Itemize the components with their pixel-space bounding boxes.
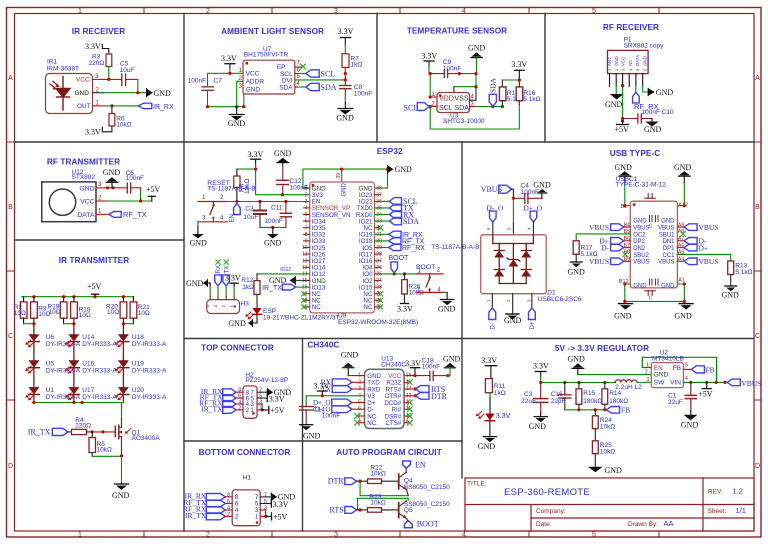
ground flag LED	[228, 319, 252, 328]
wire R5 to source	[92, 455, 121, 457]
svg-text:AMBIENT LIGHT SENSOR: AMBIENT LIGHT SENSOR	[221, 27, 324, 36]
ground symbol R25	[588, 466, 622, 475]
wire VCC net red	[104, 78, 121, 80]
no-connect U13 right	[404, 402, 408, 404]
wire H1 pin7 to gnd flag	[260, 496, 271, 498]
wire C6 down to VCC row	[140, 188, 142, 201]
svg-text:100nF: 100nF	[354, 91, 372, 98]
header P1 SRX882	[607, 37, 664, 74]
svg-text:100nF: 100nF	[126, 175, 144, 182]
svg-text:1: 1	[305, 186, 308, 192]
wire C5 down to GND net	[137, 79, 139, 92]
net flag VBUS B4	[589, 223, 624, 232]
resistor R15	[576, 383, 602, 410]
svg-text:SBU2: SBU2	[633, 253, 649, 259]
svg-text:USB TYPE-C: USB TYPE-C	[610, 149, 661, 158]
svg-text:DTR: DTR	[431, 392, 448, 401]
power flag 3.3V (led)	[481, 356, 497, 379]
svg-text:1kΩ: 1kΩ	[494, 390, 506, 397]
svg-text:AUTO PROGRAM CIRCUIT: AUTO PROGRAM CIRCUIT	[336, 448, 442, 457]
svg-text:VCC: VCC	[621, 57, 626, 66]
svg-text:SCL: SCL	[321, 70, 336, 79]
svg-text:IRM-3638T: IRM-3638T	[47, 66, 80, 73]
svg-text:+5V: +5V	[146, 185, 161, 194]
connector H1	[227, 490, 267, 526]
wire C2 C11 to gnd	[260, 226, 286, 228]
svg-text:3.3V: 3.3V	[269, 394, 285, 403]
svg-text:4: 4	[462, 532, 466, 539]
resistor R18	[71, 302, 78, 318]
net flag RX U13	[321, 378, 365, 387]
SCL pin stub	[295, 73, 299, 75]
wire V3	[306, 396, 364, 407]
SDA pin stub	[295, 86, 299, 88]
net flag DTR U13	[404, 392, 448, 401]
capacitor C12	[277, 166, 308, 195]
svg-text:3: 3	[334, 532, 338, 539]
net flag IR_TX H1	[185, 511, 232, 520]
net flag RTS U13	[404, 385, 445, 394]
power flag 3.3V (reg out)	[533, 362, 549, 383]
capacitor C7	[188, 77, 222, 90]
svg-text:FB: FB	[673, 365, 681, 372]
wire VSS riser	[454, 74, 476, 101]
wire H2 pin1 to +5V	[257, 409, 262, 411]
svg-text:U1: U1	[46, 387, 55, 394]
capacitor C4	[513, 183, 542, 204]
power flag 3.3V (left)	[221, 54, 237, 73]
svg-text:10uF: 10uF	[244, 214, 259, 221]
wire FB rail	[565, 409, 607, 411]
svg-text:GND: GND	[336, 114, 354, 123]
capacitor C9	[429, 59, 461, 78]
wire R22 to Q4 base	[382, 480, 399, 482]
frame column ticks top	[144, 8, 659, 14]
svg-text:180kΩ: 180kΩ	[583, 398, 602, 405]
svg-text:FB: FB	[621, 406, 630, 415]
svg-text:U6: U6	[46, 334, 55, 341]
svg-text:RF TRANSMITTER: RF TRANSMITTER	[47, 158, 120, 167]
svg-text:5: 5	[592, 8, 596, 15]
svg-text:GND: GND	[681, 420, 699, 429]
ground flag (right)	[648, 88, 673, 97]
svg-text:DN1: DN1	[662, 239, 675, 245]
ground symbol reset	[190, 234, 208, 248]
svg-text:DY-IR333-A: DY-IR333-A	[82, 394, 117, 401]
net flag SCL (left)	[404, 103, 430, 113]
ground symbol	[112, 483, 130, 500]
svg-text:CH340C: CH340C	[307, 341, 339, 350]
svg-text:IR RECEIVER: IR RECEIVER	[72, 27, 125, 36]
svg-text:GND: GND	[264, 239, 282, 248]
svg-text:3.3V: 3.3V	[496, 413, 511, 420]
svg-text:10Ω: 10Ω	[14, 310, 26, 317]
wire Q1 source down	[121, 437, 123, 457]
wire Q5 collector to RTS net	[358, 498, 409, 510]
net flag D+_O	[523, 203, 542, 235]
wire pin1	[348, 375, 364, 377]
svg-text:GND: GND	[79, 185, 94, 192]
power flag 3.3V	[248, 150, 264, 169]
svg-text:GND: GND	[674, 311, 692, 320]
transistor Q5 SS8050	[399, 500, 450, 521]
svg-text:3.3V: 3.3V	[338, 27, 354, 36]
LED U16	[65, 360, 117, 374]
svg-text:D-: D-	[601, 243, 609, 252]
svg-text:DY-IR333-A: DY-IR333-A	[46, 394, 81, 401]
resistor R5	[89, 432, 112, 456]
svg-text:6: 6	[305, 219, 308, 225]
wire FB pin5	[683, 368, 691, 370]
svg-text:10Ω: 10Ω	[138, 310, 150, 317]
svg-text:D: D	[755, 463, 760, 470]
resistor R11	[485, 379, 505, 397]
resistor R19	[60, 302, 67, 318]
svg-text:DN2: DN2	[633, 246, 646, 252]
svg-text:9: 9	[305, 239, 308, 245]
wire VCC vertical	[622, 85, 624, 121]
svg-text:VBUS: VBUS	[589, 223, 609, 232]
power flag 3.3V top	[85, 42, 109, 54]
svg-text:4: 4	[462, 8, 466, 15]
wire cathode rail	[32, 402, 122, 404]
net flag IR_TX row16	[262, 284, 310, 292]
svg-text:B: B	[8, 204, 13, 211]
LED U18	[115, 334, 167, 348]
svg-text:2: 2	[305, 192, 308, 198]
power flag 3.3V (left)	[421, 52, 437, 74]
ground symbol above C12	[274, 149, 292, 166]
svg-text:3: 3	[305, 199, 308, 205]
section titles	[47, 23, 660, 457]
svg-text:GND: GND	[395, 165, 413, 174]
net flag RTS	[329, 505, 367, 514]
wire H2 pin3 jog	[257, 403, 262, 405]
ground symbol C14	[300, 425, 321, 441]
svg-text:GND: GND	[661, 283, 675, 289]
svg-text:3.3V: 3.3V	[405, 359, 421, 368]
EP pin stub + no-connect X	[295, 66, 302, 68]
svg-text:SDA: SDA	[321, 83, 337, 92]
svg-text:1kΩ: 1kΩ	[351, 62, 363, 69]
svg-text:GND: GND	[341, 351, 359, 360]
ground symbol top	[674, 163, 692, 206]
svg-text:B1: B1	[621, 204, 628, 210]
svg-text:C11: C11	[271, 205, 283, 212]
ground symbol R13	[722, 286, 740, 299]
svg-text:2: 2	[246, 407, 250, 414]
wire CC1 to R13	[677, 254, 730, 261]
svg-text:GND: GND	[303, 432, 321, 441]
wire H1 pin3 jog	[260, 509, 266, 511]
svg-text:+5V: +5V	[87, 282, 102, 291]
net flag D- A7	[684, 237, 707, 246]
resistor R3	[89, 54, 112, 68]
svg-text:220Ω: 220Ω	[75, 422, 91, 429]
capacitor C11	[264, 202, 291, 228]
ground flag (up)	[103, 168, 121, 188]
svg-text:VSS: VSS	[455, 96, 469, 103]
pin stubs	[610, 74, 643, 87]
svg-text:15: 15	[302, 278, 308, 284]
capacitor C8	[340, 84, 373, 98]
ground symbol boot	[438, 300, 456, 314]
capacitor C10	[623, 109, 674, 123]
ground symbol C3	[529, 417, 548, 431]
net flag IR_RX	[375, 233, 389, 235]
svg-text:BH1750FVI-TR: BH1750FVI-TR	[244, 52, 289, 59]
svg-text:GND: GND	[75, 90, 90, 97]
LED U5	[25, 360, 81, 374]
svg-text:3.3V: 3.3V	[314, 382, 330, 391]
wire R4 to gate	[87, 431, 93, 433]
svg-text:VBUS: VBUS	[699, 257, 719, 266]
net flag D- bottom	[489, 308, 496, 330]
ground flag top right	[388, 165, 413, 174]
power flag 3.3V below R26	[397, 304, 413, 314]
svg-text:IR1: IR1	[47, 59, 58, 66]
wire EN loop to VIN	[642, 357, 716, 382]
svg-text:DVI: DVI	[282, 77, 293, 84]
svg-text:13: 13	[302, 265, 308, 271]
wire GND net	[104, 92, 147, 94]
svg-text:GND: GND	[654, 371, 669, 378]
net flag BOOT auto	[404, 520, 438, 529]
wire R23 to Q5 base	[382, 509, 399, 511]
svg-text:29: 29	[376, 245, 382, 251]
svg-text:1: 1	[255, 514, 259, 521]
capacitor C3	[521, 383, 548, 417]
svg-text:2: 2	[206, 532, 210, 539]
wire R11 to LED	[489, 393, 491, 414]
svg-text:10kΩ: 10kΩ	[600, 448, 615, 455]
title block	[465, 478, 754, 531]
resistor R25	[592, 429, 615, 467]
svg-text:GND: GND	[674, 163, 692, 172]
ground flag H2	[267, 388, 291, 397]
svg-text:C: C	[755, 333, 760, 340]
svg-text:USBLC6-2SC6: USBLC6-2SC6	[538, 296, 582, 303]
svg-text:ESP32-WROOM-32E(8MB): ESP32-WROOM-32E(8MB)	[338, 319, 418, 326]
svg-text:GND: GND	[190, 239, 208, 248]
wire boot to gnd	[444, 292, 447, 299]
svg-text:28: 28	[376, 252, 382, 258]
svg-text:7: 7	[305, 225, 308, 231]
net flag SCL	[375, 200, 390, 202]
wire pin2 to gnd	[615, 86, 617, 94]
svg-text:GND: GND	[443, 355, 461, 364]
svg-text:4: 4	[305, 206, 308, 212]
resistor R4	[72, 417, 92, 435]
svg-text:3.3V: 3.3V	[248, 150, 264, 159]
wire source to gnd	[121, 456, 123, 483]
net flag FB	[606, 406, 630, 415]
no-connect U13 right	[404, 408, 408, 410]
svg-text:DP2: DP2	[633, 239, 645, 245]
resistor stubs top	[24, 297, 134, 302]
power flag 3.3V (right)	[338, 27, 354, 54]
svg-text:VBUS: VBUS	[658, 260, 674, 266]
svg-text:FB: FB	[706, 366, 715, 375]
svg-text:10uF: 10uF	[120, 67, 135, 74]
capacitor C14	[300, 407, 341, 425]
svg-text:1: 1	[78, 8, 82, 15]
photodiode inside IR1	[56, 77, 70, 111]
svg-text:100nF: 100nF	[188, 77, 206, 84]
svg-text:DY-IR333-A: DY-IR333-A	[132, 394, 167, 401]
power flag 3.3V (right)	[511, 60, 527, 80]
wire OC2 to R17	[576, 234, 630, 241]
transistor Q4 SS8050	[399, 468, 450, 496]
power flag +5V	[146, 185, 161, 201]
svg-text:3.3V: 3.3V	[85, 128, 101, 137]
power flag 3.3V H3 pin4	[225, 273, 241, 286]
resistor R7	[342, 54, 362, 69]
svg-text:SRX882 copy: SRX882 copy	[624, 42, 664, 49]
ground symbol	[228, 107, 246, 128]
svg-text:U5: U5	[46, 360, 55, 367]
resistor R9	[31, 302, 38, 318]
resistor R24	[592, 410, 615, 431]
capacitor C16	[551, 383, 571, 410]
resistor R16	[516, 87, 540, 105]
svg-text:GND: GND	[643, 56, 648, 66]
wire SDA row	[476, 106, 502, 108]
svg-text:VBUS: VBUS	[633, 260, 649, 266]
svg-text:36: 36	[376, 199, 382, 205]
svg-text:+5V: +5V	[273, 513, 288, 522]
svg-text:GND: GND	[614, 56, 619, 66]
svg-text:SCL: SCL	[404, 104, 419, 113]
ground flag GND (top)	[468, 44, 486, 74]
wire 3.3V to 3V3 pin	[256, 169, 310, 195]
svg-text:+5V: +5V	[698, 390, 713, 399]
ground symbol (left)	[605, 94, 624, 109]
resistor R13	[728, 261, 753, 286]
junction dots	[429, 72, 432, 75]
capacitor C6	[126, 170, 144, 193]
svg-text:DY-IR333-A: DY-IR333-A	[82, 367, 117, 374]
svg-text:SBU1: SBU1	[659, 232, 675, 238]
LED U14	[65, 334, 117, 348]
svg-text:GND: GND	[633, 283, 647, 289]
capacitor C2	[244, 202, 267, 228]
svg-text:DY-IR333-A: DY-IR333-A	[132, 341, 167, 348]
svg-text:VBUS: VBUS	[699, 223, 719, 232]
net flag SDA	[306, 83, 337, 92]
svg-text:GND: GND	[605, 466, 623, 475]
svg-text:+5V: +5V	[615, 125, 630, 134]
svg-text:10kΩ: 10kΩ	[97, 446, 112, 453]
svg-text:14: 14	[302, 272, 308, 278]
svg-text:37: 37	[376, 192, 382, 198]
power flag 3.3V VCC	[405, 359, 421, 376]
svg-text:180kΩ: 180kΩ	[609, 398, 628, 405]
svg-text:1.2: 1.2	[733, 487, 743, 496]
svg-text:8: 8	[305, 232, 308, 238]
svg-text:NC.: NC.	[367, 420, 378, 427]
svg-text:8: 8	[227, 492, 230, 498]
svg-text:24: 24	[376, 278, 382, 284]
svg-text:GND: GND	[529, 422, 547, 431]
junction dots	[228, 72, 231, 75]
svg-text:U16: U16	[82, 360, 94, 367]
wire H1 pin1 to +5V	[260, 515, 266, 517]
wire C8 to gnd	[344, 89, 346, 109]
svg-text:33: 33	[376, 219, 382, 225]
button BOOT TS-1187A	[416, 264, 444, 294]
svg-text:OUT: OUT	[77, 103, 91, 110]
resistor R6	[109, 106, 132, 129]
ground symbol near C4	[533, 181, 551, 199]
svg-text:BOOT: BOOT	[417, 520, 439, 529]
svg-text:RF RECEIVER: RF RECEIVER	[603, 23, 659, 32]
svg-text:10Ω: 10Ω	[49, 309, 61, 316]
net flag RF_RX (vertical)	[633, 92, 659, 111]
wire EN line	[227, 201, 310, 203]
svg-text:VIN: VIN	[670, 380, 681, 387]
wire L2 to SW	[637, 381, 651, 383]
net flag VBUS top	[481, 185, 514, 198]
svg-text:SDA: SDA	[455, 105, 470, 112]
svg-text:VBUS: VBUS	[589, 257, 609, 266]
capacitor C1	[668, 382, 696, 414]
svg-text:ADDR: ADDR	[246, 79, 265, 86]
net flag EN (vertical)	[230, 202, 241, 223]
svg-text:25: 25	[648, 295, 653, 300]
svg-text:GND: GND	[228, 119, 246, 128]
wire C7 top to VCC	[208, 73, 244, 87]
svg-text:VBUS: VBUS	[741, 379, 761, 388]
wire GND pin down	[242, 89, 245, 106]
resistor R17	[573, 241, 598, 262]
wire H2 pin5 to 3.3V	[257, 397, 267, 399]
net flag FB right	[691, 366, 714, 375]
svg-text:100nF: 100nF	[264, 218, 282, 225]
net flag SDA (vertical)	[489, 77, 498, 106]
svg-text:GND: GND	[722, 290, 740, 299]
svg-text:GND: GND	[112, 491, 130, 500]
net flag D+ bottom	[529, 308, 536, 330]
net flag IR_RX	[138, 103, 174, 111]
wire pin5 to flag	[635, 86, 637, 92]
svg-text:1: 1	[78, 532, 82, 539]
svg-text:SDA: SDA	[489, 77, 498, 93]
svg-text:DATA: DATA	[77, 212, 95, 219]
svg-text:GND: GND	[661, 218, 675, 224]
svg-text:U17: U17	[82, 387, 94, 394]
svg-text:2: 2	[227, 512, 230, 518]
svg-text:3.3V: 3.3V	[273, 500, 289, 509]
svg-text:GND: GND	[504, 316, 522, 325]
IC IR1 IRM-3638T	[46, 59, 105, 114]
svg-text:10kΩ: 10kΩ	[370, 500, 385, 507]
svg-text:GND: GND	[478, 442, 496, 451]
wires resistor bottoms merge	[24, 318, 134, 324]
svg-text:AA: AA	[664, 519, 674, 528]
svg-text:38: 38	[376, 186, 382, 192]
svg-text:1kΩ: 1kΩ	[242, 284, 254, 291]
svg-text:D: D	[8, 463, 13, 470]
svg-text:5V -> 3.3V REGULATOR: 5V -> 3.3V REGULATOR	[555, 344, 649, 353]
svg-text:C7: C7	[214, 77, 223, 84]
svg-text:3.3V: 3.3V	[397, 305, 413, 314]
svg-text:7: 7	[264, 492, 267, 498]
svg-text:3: 3	[334, 8, 338, 15]
svg-text:VBUS: VBUS	[658, 226, 674, 232]
diode array D1 USBLC6-2SC6	[481, 235, 582, 303]
svg-text:GND: GND	[605, 100, 623, 109]
